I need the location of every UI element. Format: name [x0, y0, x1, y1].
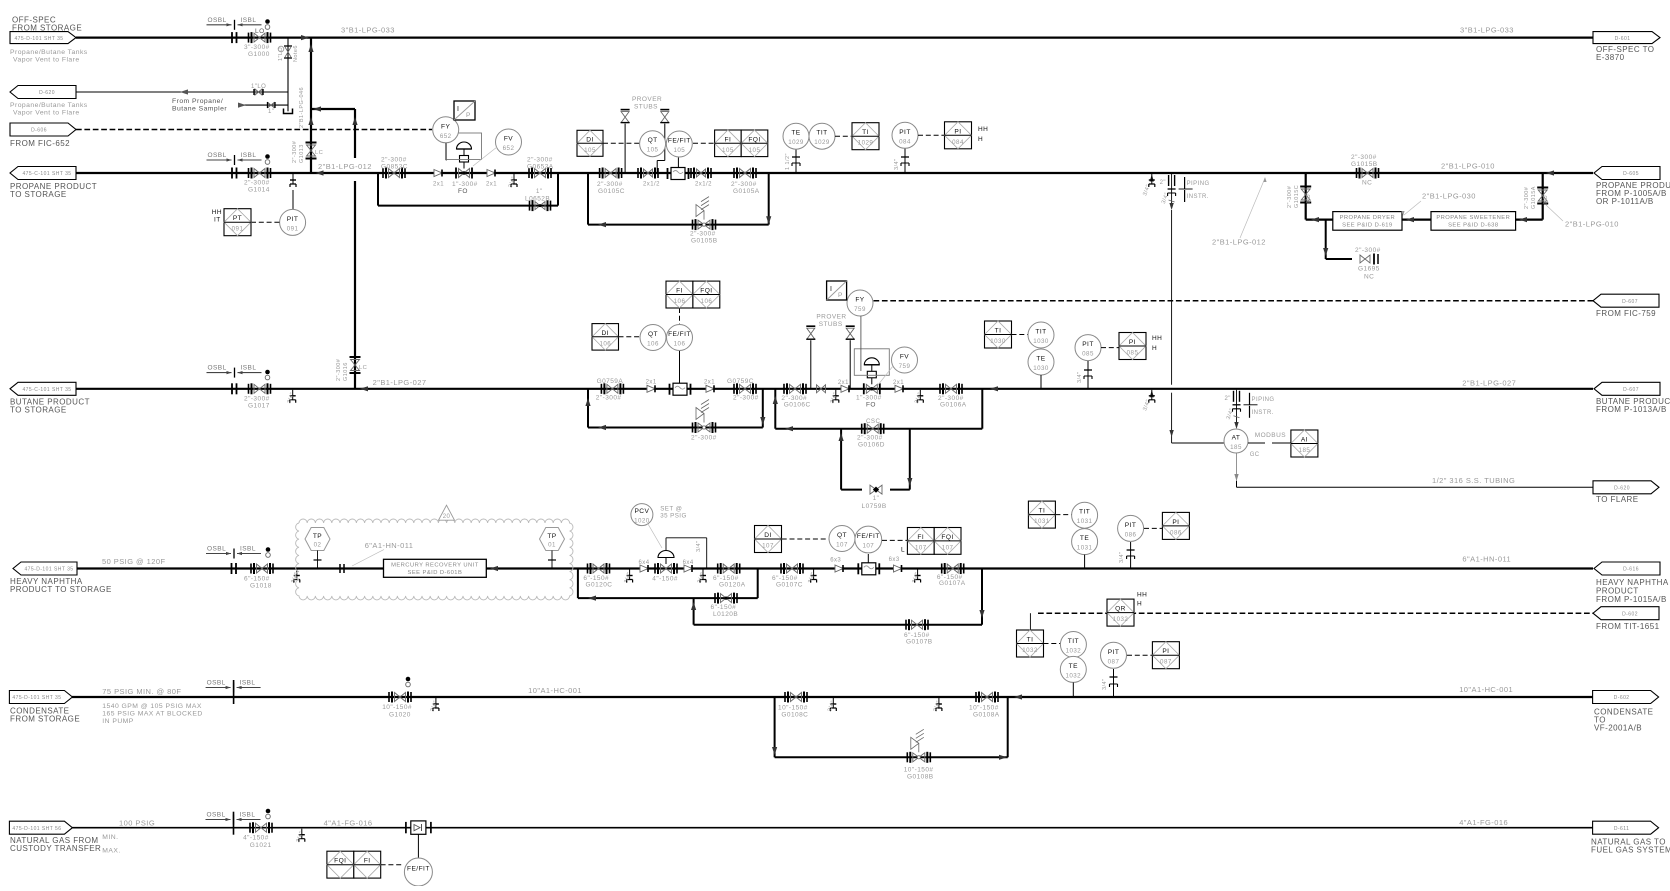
instr TE-1029	[783, 123, 809, 149]
svg-text:I: I	[830, 286, 832, 293]
svg-text:FO: FO	[866, 402, 876, 409]
vent G1018	[266, 547, 271, 552]
PD meter 106	[673, 383, 687, 395]
instr FI-105 FQI-105	[715, 130, 742, 157]
flag 475-C-101 propane	[10, 167, 76, 180]
svg-text:TP: TP	[547, 533, 556, 540]
control valve FV-759	[866, 384, 877, 393]
breakup flanges naphtha	[231, 563, 233, 574]
OSBL/ISBL boundary line1	[207, 24, 232, 26]
svg-text:10"A1-HC-001: 10"A1-HC-001	[1459, 685, 1513, 694]
svg-text:4"A1-FG-016: 4"A1-FG-016	[324, 819, 373, 828]
svg-text:4"-150#: 4"-150#	[243, 835, 269, 842]
condensate bypass left	[774, 697, 776, 757]
svg-text:106: 106	[674, 341, 686, 348]
prover stub 1	[624, 124, 626, 173]
svg-text:3/4": 3/4"	[1077, 372, 1083, 383]
reducer 6x3	[835, 565, 843, 572]
box PROPANE DRYER	[1333, 212, 1402, 231]
svg-text:FE/FIT: FE/FIT	[668, 331, 691, 338]
nozzle TE-1031	[1084, 555, 1086, 569]
svg-text:STUBS: STUBS	[634, 104, 658, 111]
signal TIT-TI 1029	[835, 135, 852, 137]
svg-text:Propane/Butane Tanks: Propane/Butane Tanks	[10, 102, 88, 109]
svg-text:1030: 1030	[1033, 365, 1049, 372]
svg-text:PIT: PIT	[1082, 341, 1094, 348]
svg-text:2x1: 2x1	[838, 380, 849, 386]
instr PI-087	[1152, 642, 1179, 669]
arrow bypass left 2	[785, 426, 793, 431]
svg-text:1032: 1032	[1066, 648, 1082, 655]
svg-text:TIT: TIT	[1079, 509, 1090, 516]
svg-text:107: 107	[942, 544, 954, 551]
svg-text:D-616: D-616	[1623, 567, 1639, 573]
signal PI-PIT 091	[251, 221, 279, 223]
svg-text:NC: NC	[1362, 180, 1372, 187]
svg-text:HH: HH	[1137, 592, 1147, 599]
svg-text:D-601: D-601	[1615, 36, 1631, 42]
svg-text:2"-300#: 2"-300#	[244, 180, 270, 187]
svg-text:TI: TI	[995, 328, 1002, 335]
svg-text:086: 086	[1170, 529, 1182, 536]
flag D-601	[1593, 32, 1660, 44]
instr FY-652	[433, 117, 459, 143]
svg-text:PROVER: PROVER	[632, 96, 662, 103]
instr PIT-091	[280, 209, 306, 235]
gate valve G0105A	[740, 169, 751, 178]
svg-text:P: P	[466, 112, 471, 119]
instr PIT-085	[1075, 335, 1101, 361]
signal DI-QT	[603, 142, 640, 144]
svg-text:FI: FI	[364, 858, 371, 865]
pipe 3-B1-LPG-033	[76, 36, 1593, 38]
svg-text:FROM TIT-1651: FROM TIT-1651	[1596, 622, 1660, 631]
svg-text:ISBL: ISBL	[241, 152, 257, 159]
vent G1020	[406, 677, 411, 682]
tap to PIT-091	[292, 174, 294, 180]
nozzle PIT-086	[1130, 542, 1132, 569]
drop to G1695	[1325, 220, 1327, 259]
OSBL/ISBL condensate	[206, 687, 231, 689]
pipe to D-620	[76, 91, 288, 93]
svg-text:2"-300#: 2"-300#	[690, 231, 716, 238]
svg-text:084: 084	[899, 138, 911, 145]
svg-text:PIPING: PIPING	[1187, 181, 1210, 187]
flow arrow propane left	[316, 170, 324, 175]
svg-text:QT: QT	[648, 331, 658, 338]
svg-text:MIN.: MIN.	[102, 834, 118, 841]
svg-text:1/2" 316 S.S. TUBING: 1/2" 316 S.S. TUBING	[1432, 476, 1515, 485]
svg-text:TI: TI	[1039, 508, 1046, 515]
svg-text:1": 1"	[268, 109, 274, 115]
drain G0108C	[832, 698, 834, 704]
svg-text:D-620: D-620	[39, 90, 55, 96]
svg-text:G0105B: G0105B	[691, 238, 718, 245]
valve G0105B	[698, 220, 710, 229]
flag D-620 flare	[1593, 481, 1659, 494]
naphtha bypass	[578, 597, 758, 599]
valve L0120B	[721, 594, 732, 603]
svg-text:10"-150#: 10"-150#	[969, 705, 999, 712]
svg-text:106: 106	[701, 298, 713, 305]
arrow up fv bypass	[773, 396, 778, 404]
svg-text:NO: NO	[1543, 195, 1549, 204]
svg-text:6"A1-HN-011: 6"A1-HN-011	[1462, 554, 1511, 563]
svg-text:FI: FI	[917, 534, 924, 541]
riser G1015C	[1305, 173, 1307, 220]
instr TE-1031	[1072, 529, 1098, 555]
svg-text:FE/FIT: FE/FIT	[857, 533, 880, 540]
svg-text:G0106D: G0106D	[858, 442, 885, 449]
valve G1015A NO	[1538, 190, 1547, 201]
svg-text:2"-300#: 2"-300#	[1524, 186, 1530, 209]
reducer 6x3 b	[894, 565, 902, 572]
reducer fv759 right	[895, 385, 903, 392]
svg-text:G1013: G1013	[299, 144, 305, 163]
svg-text:1030: 1030	[1033, 338, 1049, 345]
valve L0652B	[535, 202, 545, 210]
reducer 2x1	[434, 170, 442, 177]
sample line down to AT-185	[1171, 210, 1173, 385]
svg-text:2"-300#: 2"-300#	[381, 157, 407, 164]
svg-text:OSBL: OSBL	[207, 546, 226, 553]
svg-text:1"LO: 1"LO	[278, 47, 284, 61]
nozzle PIT-084	[904, 149, 906, 174]
instr QT-106	[640, 325, 666, 351]
svg-text:CUSTODY TRANSFER: CUSTODY TRANSFER	[10, 844, 101, 853]
breakup flange condensate	[233, 680, 235, 704]
gate valve G1017	[254, 384, 265, 393]
svg-text:35 PSIG: 35 PSIG	[660, 513, 687, 520]
fv bypass drop	[774, 389, 776, 429]
arrow down sample	[1169, 203, 1173, 210]
gate valve G1021	[256, 823, 267, 832]
svg-text:10"-150#: 10"-150#	[904, 767, 934, 774]
svg-text:D-607: D-607	[1622, 299, 1638, 305]
svg-text:G0105C: G0105C	[598, 188, 625, 195]
valve 1 in sampler	[268, 103, 274, 108]
svg-text:H: H	[1137, 601, 1142, 608]
svg-text:475-D-101 SHT 56: 475-D-101 SHT 56	[12, 826, 61, 832]
svg-text:FE/FIT: FE/FIT	[668, 138, 691, 145]
meter bypass pipe	[588, 224, 769, 226]
gate valve G0652A	[535, 169, 546, 178]
arrow into sweetener	[1519, 217, 1527, 222]
svg-text:FROM STORAGE: FROM STORAGE	[12, 24, 82, 33]
svg-text:TO STORAGE: TO STORAGE	[10, 190, 67, 199]
flag D-611	[1593, 821, 1659, 834]
svg-text:20: 20	[443, 514, 451, 520]
instr PIT-086	[1118, 515, 1144, 541]
svg-text:MERCURY RECOVERY UNIT: MERCURY RECOVERY UNIT	[391, 563, 479, 569]
svg-text:LC: LC	[315, 150, 323, 156]
gate valve G0106C	[790, 384, 801, 393]
svg-text:D-611: D-611	[1614, 826, 1630, 832]
arrow down butane bypass	[760, 417, 765, 425]
valve G0759B	[698, 423, 710, 432]
svg-text:2": 2"	[1160, 180, 1166, 186]
svg-text:FY: FY	[855, 297, 864, 304]
svg-text:E-3870: E-3870	[1596, 53, 1625, 62]
svg-text:HH: HH	[1152, 335, 1162, 342]
svg-text:G1000: G1000	[248, 51, 270, 58]
instr AT-185	[1224, 429, 1248, 453]
svg-text:ISBL: ISBL	[241, 17, 257, 24]
svg-text:H: H	[1152, 345, 1157, 352]
svg-text:G1016: G1016	[343, 362, 349, 381]
svg-text:Propane/Butane Tanks: Propane/Butane Tanks	[10, 49, 88, 56]
signal AT to AI	[1248, 442, 1265, 444]
reducer 2x1 butane	[647, 385, 655, 392]
hand valve 2x1/2 b	[697, 169, 706, 177]
svg-text:PROPANE DRYER: PROPANE DRYER	[1340, 215, 1396, 221]
svg-text:105: 105	[584, 147, 596, 154]
arrow left jumper	[313, 106, 321, 111]
svg-text:FQI: FQI	[334, 858, 346, 865]
instr PI-084	[945, 122, 972, 149]
note triangle 20	[439, 505, 455, 520]
svg-text:PI: PI	[1162, 648, 1169, 655]
svg-text:1029: 1029	[814, 139, 830, 146]
gate valve G0759A	[607, 384, 618, 393]
instr QT-105	[640, 131, 666, 157]
svg-text:2"-300#: 2"-300#	[596, 395, 622, 402]
svg-text:G0852C: G0852C	[381, 164, 408, 171]
svg-text:1030: 1030	[990, 338, 1006, 345]
instr TI-1029	[852, 123, 879, 150]
svg-text:02: 02	[314, 542, 322, 549]
instr TE-1030	[1028, 349, 1054, 375]
flag D-602 top	[1593, 607, 1659, 620]
signal PIT-PI 087	[1127, 654, 1152, 656]
jumper y109	[311, 108, 355, 110]
gate valve G0108A	[982, 693, 993, 702]
svg-text:Butane Sampler: Butane Sampler	[172, 106, 227, 113]
svg-text:NO: NO	[1306, 194, 1312, 203]
sample connection bracket	[284, 109, 293, 114]
svg-text:10"A1-HC-001: 10"A1-HC-001	[528, 686, 582, 695]
sample elbow to AT	[1171, 437, 1173, 443]
svg-text:H: H	[978, 136, 983, 143]
signal AT down	[1236, 453, 1238, 481]
svg-text:106: 106	[599, 340, 611, 347]
svg-text:10"-150#: 10"-150#	[382, 704, 412, 711]
arrow flow left butane	[360, 386, 368, 391]
instr TI-1031	[1028, 501, 1055, 528]
gate valve G0106A	[946, 384, 957, 393]
fv759 bypass	[775, 428, 982, 430]
naphtha pipe	[77, 567, 384, 569]
instr TI-1030	[985, 321, 1012, 348]
vent G1021	[266, 809, 271, 814]
svg-text:ISBL: ISBL	[240, 812, 256, 819]
svg-text:2"-300#: 2"-300#	[857, 435, 883, 442]
vent G1017	[265, 370, 270, 375]
nozzle PIT-085	[1087, 361, 1089, 389]
box PROPANE SWEETENER	[1431, 212, 1516, 231]
leader FV759	[878, 366, 893, 385]
I/P box 759	[827, 281, 847, 300]
svg-text:6"-150#: 6"-150#	[711, 604, 737, 611]
svg-text:TI: TI	[1027, 637, 1034, 644]
FE element ng	[411, 821, 426, 834]
svg-text:1029: 1029	[858, 140, 874, 147]
svg-text:1": 1"	[873, 496, 879, 502]
svg-text:G1015A: G1015A	[1531, 186, 1537, 209]
instr FY-759	[847, 290, 873, 316]
gate valve G1018	[257, 564, 268, 573]
svg-text:OSBL: OSBL	[208, 17, 227, 24]
svg-text:ISBL: ISBL	[241, 365, 257, 372]
link FE107 to meter	[867, 554, 869, 563]
butane meter bypass	[588, 427, 763, 429]
svg-text:4"-150#: 4"-150#	[652, 576, 678, 583]
drain G1021	[301, 829, 303, 835]
svg-text:1029: 1029	[788, 139, 804, 146]
svg-text:FI: FI	[676, 288, 683, 295]
instr FI-107 FQI-107	[907, 528, 934, 555]
svg-text:1"LO: 1"LO	[251, 84, 266, 90]
svg-text:2"B1-LPG-012: 2"B1-LPG-012	[318, 162, 372, 171]
svg-text:G0120A: G0120A	[719, 582, 746, 589]
svg-text:G0120C: G0120C	[586, 582, 613, 589]
svg-text:PRODUCT TO STORAGE: PRODUCT TO STORAGE	[10, 585, 112, 594]
breakup flange ng	[233, 812, 235, 835]
loop L0759B	[840, 429, 842, 490]
signal TIT-TI 1031	[1055, 514, 1071, 516]
svg-text:3/4": 3/4"	[696, 541, 702, 552]
svg-text:D-620: D-620	[1614, 486, 1630, 492]
reducer 2x1 b	[487, 170, 495, 177]
flow arrow D-620	[180, 89, 188, 94]
naphtha bypass drop	[577, 569, 579, 599]
drain G1017	[292, 390, 294, 396]
drain after FV652	[513, 174, 515, 180]
svg-text:G1014: G1014	[248, 187, 270, 194]
svg-text:475-C-101 SHT 35: 475-C-101 SHT 35	[22, 387, 71, 393]
flag D-607 top	[1593, 294, 1659, 307]
svg-text:VF-2001A/B: VF-2001A/B	[1594, 724, 1642, 733]
svg-text:3"-300#: 3"-300#	[244, 44, 270, 51]
svg-text:TIT: TIT	[816, 130, 827, 137]
svg-text:G0105A: G0105A	[733, 188, 760, 195]
link FE106 to meter	[679, 351, 681, 383]
valve G1015C NO	[1301, 189, 1310, 200]
link FE to meter	[677, 158, 679, 168]
signal down to TI-1032	[1029, 613, 1031, 630]
svg-text:TO STORAGE: TO STORAGE	[10, 406, 67, 415]
instr PI-085	[1119, 333, 1146, 360]
condensate bypass right	[1007, 697, 1009, 757]
hexagon TP-01	[540, 528, 565, 551]
instr TIT-1032	[1060, 632, 1086, 658]
flag D-616	[1594, 562, 1660, 575]
svg-text:TP: TP	[313, 533, 322, 540]
svg-text:G1015B: G1015B	[1351, 161, 1378, 168]
svg-text:INSTR.: INSTR.	[1187, 194, 1209, 200]
svg-text:1540 GPM @ 105 PSIG MAX: 1540 GPM @ 105 PSIG MAX	[102, 703, 202, 710]
bypass rejoin	[557, 173, 559, 206]
dryer outlet pipe	[1306, 219, 1333, 221]
svg-text:TIT: TIT	[1068, 638, 1079, 645]
svg-text:475-D-101 SHT 35: 475-D-101 SHT 35	[24, 567, 73, 573]
svg-text:2"-300#: 2"-300#	[292, 140, 298, 163]
svg-text:IN PUMP: IN PUMP	[102, 718, 133, 725]
control valve FV-652	[459, 169, 470, 178]
svg-text:50 PSIG @ 120F: 50 PSIG @ 120F	[102, 557, 166, 566]
svg-text:652: 652	[503, 145, 515, 152]
svg-text:165 PSIG MAX AT BLOCKED: 165 PSIG MAX AT BLOCKED	[102, 711, 202, 718]
svg-text:PIT: PIT	[1125, 522, 1137, 529]
sampler line	[238, 104, 288, 106]
nozzle TE-1029	[795, 150, 797, 174]
drain fv759 right	[919, 390, 921, 396]
svg-text:2"-300#: 2"-300#	[597, 181, 623, 188]
svg-text:2"B1-LPG-030: 2"B1-LPG-030	[1422, 192, 1476, 201]
svg-text:759: 759	[899, 363, 911, 370]
PD meter 107	[862, 563, 876, 575]
svg-text:2"B1-LPG-012: 2"B1-LPG-012	[1212, 238, 1266, 247]
instr FQI FI ng	[327, 851, 354, 878]
svg-text:OSBL: OSBL	[208, 365, 227, 372]
svg-text:TE: TE	[1069, 663, 1078, 670]
svg-text:FROM FIC-759: FROM FIC-759	[1596, 309, 1656, 318]
butane pipe	[76, 388, 1593, 390]
natural gas pipe	[72, 827, 1593, 829]
svg-text:2x1: 2x1	[433, 182, 444, 188]
reducer 2x1 butane b	[706, 385, 714, 392]
svg-text:759: 759	[854, 306, 866, 313]
arrow up into line1	[308, 44, 313, 52]
instr PCV-1020	[631, 504, 653, 526]
svg-text:1031: 1031	[1077, 545, 1093, 552]
svg-text:G0759A: G0759A	[597, 378, 624, 385]
svg-text:087: 087	[1108, 658, 1120, 665]
reducer 6x4 b	[684, 565, 692, 572]
breakup flanges	[231, 32, 233, 43]
I/P box 652	[454, 101, 475, 120]
signal FEFIT-FI	[693, 142, 715, 144]
svg-text:FV: FV	[504, 136, 513, 143]
svg-text:G1695: G1695	[1358, 266, 1380, 273]
instr DI-106	[592, 324, 619, 351]
svg-text:PI: PI	[954, 128, 961, 135]
svg-text:106: 106	[674, 298, 686, 305]
arrow meter bypass	[598, 222, 606, 227]
arrow flow left propane	[1546, 170, 1554, 175]
instr PIT-087	[1101, 642, 1127, 668]
svg-text:G0107C: G0107C	[776, 582, 803, 589]
svg-text:2"-300#: 2"-300#	[336, 358, 342, 381]
drain before G0120A	[702, 570, 704, 576]
svg-text:2"-300#: 2"-300#	[527, 157, 553, 164]
svg-text:L0759B: L0759B	[862, 503, 887, 510]
svg-text:PROPANE SWEETENER: PROPANE SWEETENER	[1436, 215, 1510, 221]
nozzle PIT-087	[1113, 669, 1115, 697]
svg-text:QT: QT	[648, 137, 658, 144]
flag 475-D-101 SHT 35 off-spec	[10, 32, 76, 44]
svg-text:2"B1-LPG-010: 2"B1-LPG-010	[1441, 162, 1495, 171]
drain with arrow	[1150, 175, 1154, 182]
svg-text:FQI: FQI	[941, 534, 953, 541]
instr TIT-1031	[1072, 502, 1098, 528]
svg-text:PI: PI	[1129, 339, 1136, 346]
signal FY to FV	[445, 143, 447, 160]
svg-text:OR P-1011A/B: OR P-1011A/B	[1596, 197, 1654, 206]
signal FY759 down	[860, 316, 862, 371]
svg-text:086: 086	[1125, 531, 1137, 538]
gate valve G0759C	[740, 384, 751, 393]
